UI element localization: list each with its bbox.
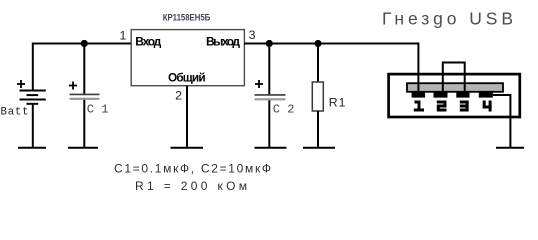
wire battery branch vertical (32, 43, 34, 91)
svg-text:Batt: Batt (1, 106, 30, 118)
ground C2 (255, 147, 287, 149)
wire IC pin3 to USB pin1 (244, 44, 418, 96)
ground battery (18, 147, 46, 149)
wire USB pin4 to ground (493, 95, 511, 148)
svg-text:C 1: C 1 (87, 103, 109, 117)
USB contact pad 4 (479, 92, 493, 98)
svg-text:C1=0.1мкФ, C2=10мкФ: C1=0.1мкФ, C2=10мкФ (114, 162, 271, 176)
ground pin2 (171, 147, 204, 149)
ground R1 (303, 147, 335, 149)
ground USB (496, 147, 524, 149)
node junction battery/C1 (81, 40, 88, 47)
USB tongue (407, 83, 503, 92)
wire IC pin2 to ground (186, 86, 188, 148)
wire R1 to ground (317, 111, 319, 148)
wire C1 to ground (83, 100, 85, 148)
USB contact pad 1 (412, 92, 426, 98)
pin number 4 (USB) (483, 101, 492, 112)
capacitor C1 (69, 82, 108, 117)
regulator IC U1 KP1158EN5B (131, 12, 244, 85)
svg-text:КР1158ЕН5Б: КР1158ЕН5Б (163, 12, 211, 23)
wire R1 branch vertical (317, 44, 319, 83)
svg-text:Вход: Вход (135, 35, 161, 49)
wire jumper USB pins 2-3 (443, 63, 465, 96)
capacitor C2 (255, 80, 295, 117)
USB contact pad 2 (434, 92, 448, 98)
wire C2 branch vertical (268, 44, 270, 96)
USB contact pad 3 (456, 92, 469, 98)
svg-text:Гнезgо USB: Гнезgо USB (382, 8, 513, 28)
wire battery to ground (32, 104, 34, 148)
svg-text:C 2: C 2 (273, 103, 295, 117)
USB socket outer body (389, 74, 520, 117)
svg-text:Выход: Выход (206, 35, 240, 49)
ground C1 (68, 147, 98, 149)
svg-text:2: 2 (175, 89, 182, 103)
pin number 3 (USB) (460, 101, 469, 112)
svg-text:R1 = 200 кОм: R1 = 200 кОм (135, 179, 247, 193)
svg-text:Общий: Общий (168, 71, 206, 85)
pin number 2 (USB) (437, 101, 447, 112)
wire battery to IC pin1 (33, 43, 131, 45)
wire C1 branch vertical (83, 44, 85, 95)
node junction C2 (266, 40, 273, 47)
battery Batt (1, 80, 46, 118)
wire C2 to ground (268, 100, 270, 148)
node junction R1 (314, 40, 321, 47)
svg-text:1: 1 (119, 29, 126, 43)
svg-text:3: 3 (249, 28, 256, 42)
pin number 1 (USB) (414, 101, 424, 112)
resistor R1 (312, 82, 346, 111)
svg-text:R1: R1 (329, 95, 347, 109)
